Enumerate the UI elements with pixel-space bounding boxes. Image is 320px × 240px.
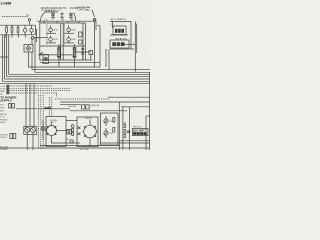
wire (105, 49, 107, 67)
resistor R9 (113, 118, 115, 123)
wire (130, 21, 132, 49)
box output stage 2 (77, 117, 98, 147)
svg-text:2SC: 2SC (110, 133, 114, 135)
transformer T1 box (113, 26, 126, 35)
wire arc left (40, 13, 45, 22)
wire bus line 4 (9, 73, 150, 75)
svg-text:50/60Hz: 50/60Hz (0, 149, 7, 150)
resistor R6 (69, 129, 71, 134)
wire (16, 108, 70, 110)
wire stubs below left box (4, 35, 6, 38)
wire (100, 142, 150, 144)
transistor Q7 (68, 26, 70, 29)
svg-text:OUT L: OUT L (50, 122, 57, 124)
wire (32, 133, 34, 151)
transistor Q14 (31, 128, 36, 133)
wire (60, 104, 81, 106)
svg-text:SUPPLY: SUPPLY (0, 99, 12, 103)
label BLK block (132, 128, 148, 135)
wire arc right (74, 13, 76, 22)
transistor Q8 (50, 36, 52, 38)
svg-text:SP R: SP R (0, 108, 5, 110)
wire (135, 23, 136, 25)
wire (121, 106, 150, 108)
box filter small (43, 55, 49, 64)
wire dashed border (55, 98, 110, 100)
relay RY1 contacts (112, 42, 116, 46)
wire (66, 119, 77, 121)
wire (60, 101, 150, 103)
box output stage (46, 117, 66, 147)
transistor Q18 (104, 131, 108, 135)
switch S4 small box (89, 51, 93, 55)
connector pins (7, 85, 9, 87)
wire box bottoms (40, 59, 92, 61)
wire dashed drop 1 (56, 93, 58, 98)
wire bottom rail 2 (0, 147, 150, 149)
wire dotted test line (2, 16, 28, 18)
wire dashed drop 2 (48, 97, 50, 116)
wire stubs rail to box (43, 21, 45, 23)
svg-text:BLK WHT: BLK WHT (133, 130, 145, 133)
resistor R8 zigzag (48, 107, 51, 109)
transformer T1 windings (115, 29, 124, 33)
wire left riser 4 (8, 35, 10, 75)
thermistor TH1 (70, 140, 73, 143)
wire (110, 34, 128, 36)
wire left flat box top (0, 24, 36, 26)
wire right riser 3 (129, 107, 131, 150)
wire dashed drop 3 (51, 97, 53, 116)
svg-text:0.22 10W: 0.22 10W (80, 149, 89, 150)
svg-text:12V DC: 12V DC (0, 137, 8, 139)
wire dashed vertical 3 (42, 95, 44, 150)
wire bus line 8 (0, 82, 150, 84)
arrow left input (0, 56, 8, 58)
wire arrow drop (111, 21, 113, 28)
wire bus line 2 (32, 69, 150, 71)
box amplifier right edge pair (82, 23, 84, 60)
transistor Q9 (68, 36, 70, 38)
wire (27, 52, 29, 67)
svg-text:2SB 2SD: 2SB 2SD (68, 106, 77, 108)
wire left riser 2 (4, 35, 6, 79)
svg-text:FUSE 2A: FUSE 2A (91, 104, 100, 107)
wire (25, 83, 27, 127)
fuse F2 (86, 105, 89, 109)
wire box top edge (40, 22, 86, 24)
wire left riser 1 (2, 35, 4, 82)
wire (108, 96, 150, 98)
wire mid rail (38, 54, 76, 56)
wire right riser 2 (122, 107, 124, 150)
transistor Q16 power (84, 125, 97, 138)
wire (108, 49, 110, 70)
wire left riser 3 (6, 35, 8, 77)
transistor Q15 power (47, 126, 57, 136)
wire diagonal (92, 10, 95, 17)
resistor R4 (79, 32, 82, 37)
wire (95, 21, 97, 30)
wire (65, 32, 74, 34)
wire dashed vertical 1 (38, 95, 40, 150)
wire left flat box right edge (35, 25, 37, 35)
wire (94, 21, 96, 67)
transistor Q5 (31, 36, 34, 39)
potentiometer VR2 (82, 47, 84, 56)
lamp L1 (44, 57, 47, 60)
capacitor C2 pill (58, 48, 61, 58)
connector J2 hatched lower (124, 129, 127, 138)
svg-text:JACK: JACK (0, 121, 6, 124)
wire right riser 1 (118, 102, 120, 150)
wire (42, 120, 44, 127)
arrow mid-left (40, 53, 44, 55)
wire (36, 29, 38, 42)
diode D3 (78, 127, 81, 130)
transistor Q4 (31, 25, 33, 28)
wire (57, 130, 68, 132)
resistor R7 zigzag (45, 107, 48, 109)
switch S2 (12, 104, 15, 109)
wire bus line 7 (3, 80, 151, 82)
wire (47, 42, 57, 44)
resistor R4b (79, 40, 82, 44)
capacitor C7 (61, 13, 63, 20)
arrow marks (127, 131, 129, 133)
switch S3 (10, 134, 13, 139)
transistor Q17 (104, 119, 108, 123)
wire (65, 42, 74, 44)
connector J1 hatched upper (124, 123, 127, 129)
diode bridge D1 (24, 45, 33, 53)
wire dashed tap 3 (7, 90, 70, 92)
node TP1 (28, 19, 30, 21)
wire (136, 24, 138, 53)
wire (33, 83, 35, 127)
resistor R2 (11, 25, 13, 27)
svg-text:L / R: L / R (0, 116, 5, 118)
wire (70, 110, 127, 112)
trimmer VR1 (93, 18, 96, 21)
resistor R1 (6, 25, 8, 27)
wire (44, 11, 58, 13)
capacitor C3 pill (73, 48, 76, 58)
wire lower rail (40, 61, 100, 63)
wire (110, 48, 134, 50)
wire bus line 1 (28, 66, 100, 68)
wire bus line 5 (7, 76, 150, 78)
wire bus line 3 (35, 71, 150, 73)
lamp L2 (41, 127, 45, 131)
wire (110, 20, 131, 22)
wire (47, 32, 57, 34)
resistor R5 (67, 129, 69, 134)
capacitor C5 (52, 12, 54, 20)
wire dashed tap 1 (7, 85, 52, 87)
wire bus line 6 (5, 78, 150, 80)
svg-text:1-OHM: 1-OHM (0, 2, 11, 6)
diode D2 chain (71, 125, 74, 128)
wire bias dashed 2 (63, 24, 65, 45)
wire bottom rail 1 (40, 145, 120, 147)
box amplifier stage 1 left edge (39, 21, 41, 60)
resistor R10 (113, 128, 115, 133)
wire (31, 38, 33, 45)
wire (52, 142, 81, 144)
wire ticks under labels (46, 10, 48, 13)
wire right edge box (145, 116, 147, 150)
wire box mid edge (40, 45, 86, 47)
wire dashed tap 2 (7, 87, 70, 89)
arrow input (35, 37, 40, 39)
transistor Q3 (24, 25, 26, 28)
label dark row (133, 132, 147, 135)
wire (29, 83, 31, 127)
wire (34, 38, 36, 72)
diode D4 (78, 133, 81, 136)
wire (31, 52, 33, 70)
wire box around pair (24, 126, 37, 134)
wire (119, 140, 150, 142)
wire main top rail (37, 20, 96, 22)
wire right edge line (148, 72, 150, 150)
svg-text:2SD313: 2SD313 (85, 118, 93, 120)
wire dashed vertical 2 (40, 95, 42, 150)
wire left flat box bottom (0, 34, 36, 36)
svg-text:AC POWER IN: AC POWER IN (111, 18, 126, 21)
svg-text:2SC: 2SC (110, 121, 114, 123)
capacitor C6 (70, 13, 72, 20)
relay RY1 box (110, 40, 129, 48)
wire coil tap (125, 43, 136, 45)
wire (26, 133, 28, 151)
wire bias dashed 1 (46, 24, 48, 45)
svg-text:CONT COIL: CONT COIL (77, 9, 89, 11)
box driver right (101, 113, 119, 145)
resistor R3 (17, 25, 19, 27)
wire (39, 54, 43, 56)
wire (74, 51, 91, 53)
fuse F1 (82, 105, 85, 109)
transistor Q13 (25, 128, 30, 133)
wire (134, 21, 136, 71)
wire hook (98, 25, 101, 67)
box amplifier stage divider pair (60, 23, 62, 60)
transistor Q6 (50, 26, 52, 29)
switch S1 (9, 104, 12, 109)
wire dashed tap 4 (7, 92, 57, 94)
